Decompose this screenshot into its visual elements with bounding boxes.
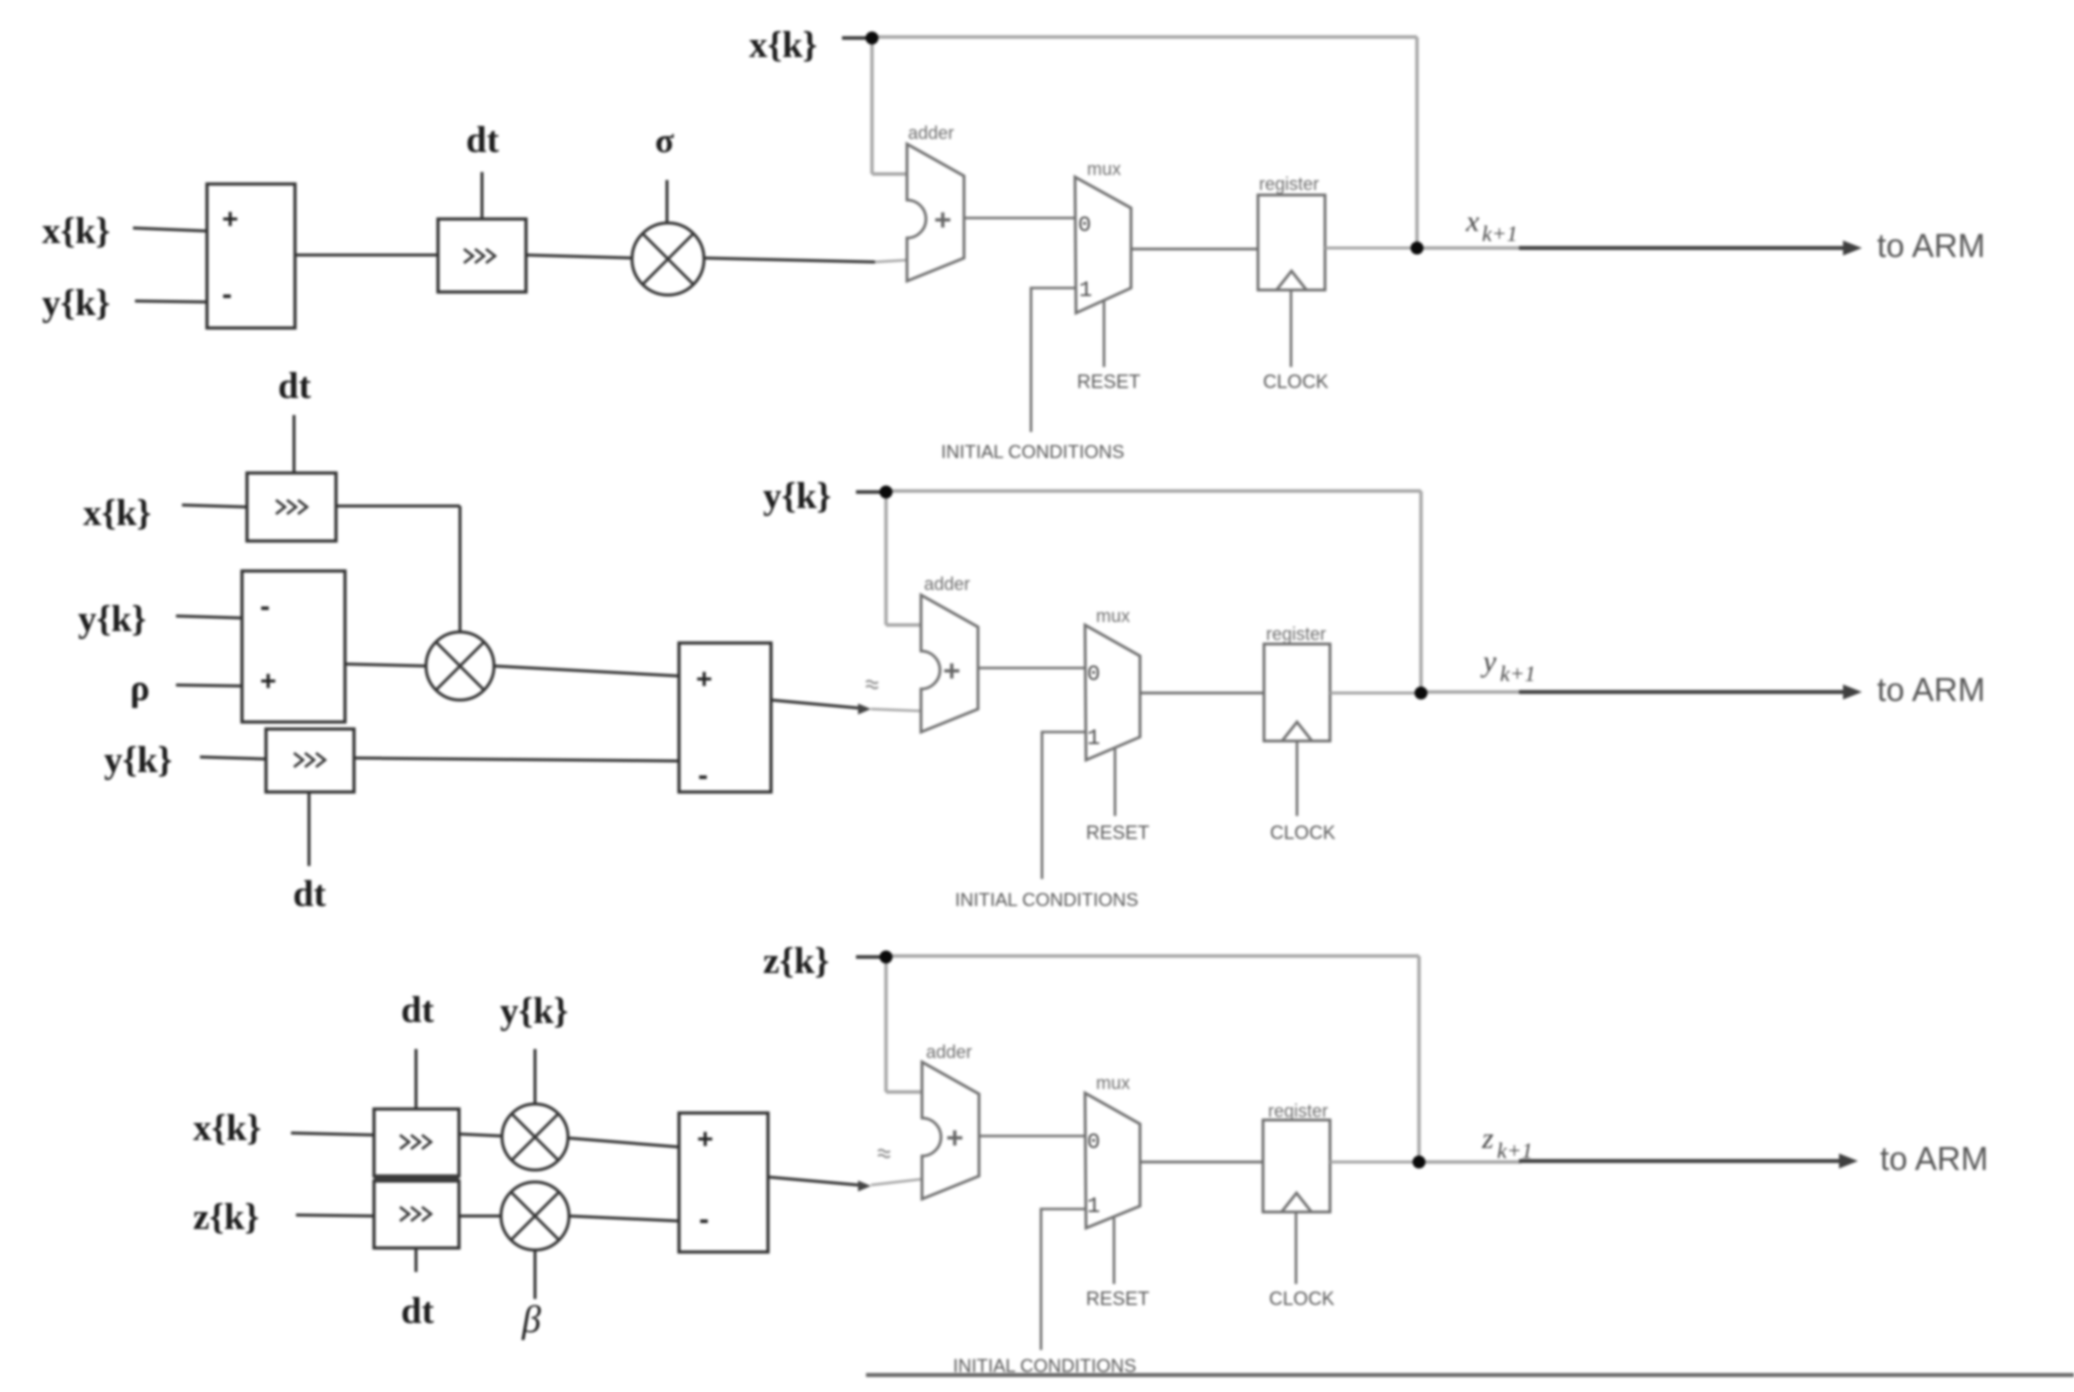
svg-text:INITIAL CONDITIONS: INITIAL CONDITIONS bbox=[953, 1355, 1136, 1376]
node y{k} input label b (row2) bbox=[104, 740, 172, 781]
label INITIAL CONDITIONS (row3) bbox=[953, 1355, 1136, 1376]
adder U7 (row3) bbox=[922, 1062, 979, 1199]
subtractor A1 minus sign bbox=[222, 278, 232, 311]
svg-text:register: register bbox=[1259, 174, 1319, 194]
label INITIAL CONDITIONS (row2) bbox=[955, 889, 1138, 910]
value label dt bottom (row3) bbox=[401, 1291, 435, 1332]
multiplier M3a (row3) bbox=[502, 1104, 568, 1170]
register U9 label bbox=[1268, 1101, 1328, 1121]
wire x{k} into subtractor (row1) bbox=[133, 228, 207, 231]
svg-text:y{k}: y{k} bbox=[78, 599, 146, 640]
wire output gray segment (row3) bbox=[1425, 1160, 1521, 1163]
wire adder U7 to mux U8 input 0 (row3) bbox=[979, 1135, 1086, 1138]
svg-text:CLOCK: CLOCK bbox=[1263, 372, 1329, 393]
wire adder U4 to mux U5 input 0 (row2) bbox=[978, 667, 1086, 670]
wire mux to register (row1) bbox=[1131, 248, 1258, 251]
label to ARM (row2) bbox=[1877, 671, 1985, 708]
wire adder A3 to adder U7 (row3) bbox=[768, 1177, 858, 1185]
multiplier M2 (row2) bbox=[426, 632, 494, 700]
svg-text:INITIAL CONDITIONS: INITIAL CONDITIONS bbox=[941, 441, 1124, 462]
wire y{k} into shifter S2b (row2) bbox=[200, 757, 266, 759]
svg-text:-: - bbox=[260, 590, 270, 623]
wire feedback top horizontal (row2) bbox=[886, 489, 1421, 492]
svg-text:y{k}: y{k} bbox=[500, 991, 568, 1032]
wire y{k} into subtractor A2 (row2) bbox=[176, 616, 242, 618]
svg-text:0: 0 bbox=[1087, 662, 1100, 687]
svg-text:1: 1 bbox=[1079, 278, 1092, 303]
wire output to ARM (row3) bbox=[1519, 1159, 1842, 1163]
node output junction dot (row1) bbox=[1411, 242, 1424, 255]
subtractor A1 (+/- box row1) bbox=[207, 184, 295, 328]
mux U5 pin 0 bbox=[1087, 662, 1100, 687]
register U3 label bbox=[1259, 174, 1319, 194]
svg-text:0: 0 bbox=[1087, 1130, 1100, 1155]
svg-text:1: 1 bbox=[1087, 1194, 1100, 1219]
svg-text:σ: σ bbox=[655, 121, 674, 160]
wire x{k} into shifter S2a (row2) bbox=[182, 505, 247, 507]
wire y{k} into subtractor (row1) bbox=[135, 301, 207, 302]
svg-text:ρ: ρ bbox=[130, 668, 150, 709]
node rho input label (row2) bbox=[130, 668, 150, 709]
svg-text:k+1: k+1 bbox=[1482, 221, 1518, 246]
mux U2 (row1) bbox=[1075, 177, 1131, 313]
arrowhead into adder U4 (row2) bbox=[858, 704, 871, 715]
adder U4 (row2) bbox=[921, 595, 978, 732]
wire multiplier M3b to adder A3 (row3) bbox=[569, 1216, 679, 1221]
wire shifter S2b to adder A2b (row2) bbox=[354, 758, 679, 761]
wire bottom rail bbox=[866, 1373, 2074, 1377]
svg-text:z{k}: z{k} bbox=[193, 1197, 259, 1238]
subtractor A1 plus sign bbox=[222, 203, 238, 234]
adder U7 plus sign bbox=[946, 1122, 964, 1155]
svg-text:z{k}: z{k} bbox=[763, 941, 829, 982]
adder A2b (+/- box row2) bbox=[679, 643, 771, 792]
wire subtractor to shifter (row1) bbox=[295, 254, 438, 257]
label RESET (row2) bbox=[1086, 823, 1150, 844]
wire stub into adder U4 (row2) bbox=[871, 709, 922, 711]
svg-text:-: - bbox=[222, 278, 232, 311]
wire beta into multiplier M3b (row3) bbox=[534, 1250, 537, 1299]
node label y_k+1 (row2) bbox=[1480, 645, 1536, 686]
svg-text:1: 1 bbox=[1087, 726, 1100, 751]
svg-text:x{k}: x{k} bbox=[749, 25, 817, 66]
svg-text:β: β bbox=[521, 1299, 541, 1341]
wire from z{k} label to node (row3) bbox=[856, 955, 880, 958]
mux U5 pin 1 bbox=[1087, 726, 1100, 751]
wire sigma into multiplier (row1) bbox=[666, 180, 669, 223]
svg-text:dt: dt bbox=[293, 874, 327, 915]
wire CLOCK to register U9 (row3) bbox=[1295, 1212, 1298, 1284]
wire from y{k} label to node (row2) bbox=[856, 490, 880, 493]
wire feedback top horizontal (row3) bbox=[886, 954, 1419, 957]
shifter S1 (>>> box row1) bbox=[438, 219, 526, 292]
shifter S3a (>>> box row3 top) bbox=[374, 1109, 459, 1176]
wire mux U8 to register U9 (row3) bbox=[1140, 1161, 1263, 1164]
node output junction dot (row2) bbox=[1415, 687, 1428, 700]
adder U7 label bbox=[926, 1042, 972, 1062]
svg-text:register: register bbox=[1266, 624, 1326, 644]
wire z{k} into shifter S3b (row3) bbox=[296, 1215, 374, 1216]
wire shifter S3a to multiplier M3a (row3) bbox=[459, 1134, 502, 1136]
svg-text:z: z bbox=[1481, 1122, 1494, 1155]
subtractor A2 plus sign bbox=[260, 665, 276, 696]
wire from node down to adder upper input (row2) bbox=[886, 492, 922, 625]
mux U2 label bbox=[1087, 159, 1121, 179]
adder A3 minus sign bbox=[699, 1203, 709, 1236]
arrowhead to ARM (row2) bbox=[1843, 685, 1862, 700]
svg-text:y{k}: y{k} bbox=[104, 740, 172, 781]
node y{k} input label (row1 left) bbox=[42, 283, 110, 324]
label CLOCK (row3) bbox=[1269, 1289, 1335, 1310]
svg-text:dt: dt bbox=[401, 1291, 435, 1332]
svg-text:RESET: RESET bbox=[1086, 823, 1150, 844]
wire subtractor A2 to multiplier M2 (row2) bbox=[345, 664, 426, 666]
adder A2b plus sign bbox=[696, 663, 712, 694]
svg-text:x: x bbox=[1465, 205, 1480, 238]
approx mark (row2) bbox=[866, 681, 878, 689]
wire multiplier to adder (row1) bbox=[704, 258, 908, 262]
wire from x{k} label to node (row1) bbox=[842, 36, 866, 39]
svg-text:+: + bbox=[697, 1123, 713, 1154]
wire feedback right vertical (row3) bbox=[1417, 956, 1420, 1162]
approx mark (row3) bbox=[878, 1150, 890, 1158]
svg-text:mux: mux bbox=[1087, 159, 1121, 179]
svg-text:INITIAL CONDITIONS: INITIAL CONDITIONS bbox=[955, 889, 1138, 910]
wire register U9 to output node (row3) bbox=[1330, 1161, 1419, 1164]
svg-text:x{k}: x{k} bbox=[42, 211, 110, 252]
mux U8 pin 0 bbox=[1087, 1130, 1100, 1155]
value label dt (row1) bbox=[466, 120, 500, 161]
multiplier M3b (row3) bbox=[501, 1182, 569, 1250]
wire feedback right vertical (row1) bbox=[1415, 37, 1418, 248]
wire multiplier M3a to adder A3 (row3) bbox=[568, 1138, 679, 1147]
node output junction dot (row3) bbox=[1413, 1156, 1426, 1169]
node x{k} input label (row3) bbox=[193, 1108, 261, 1149]
node y{k} input label (row2) bbox=[78, 599, 146, 640]
wire shifter S2a to multiplier M2 (row2) bbox=[336, 506, 460, 632]
wire output to ARM (row1) bbox=[1519, 246, 1845, 250]
svg-text:y{k}: y{k} bbox=[763, 476, 831, 517]
divider between shifters (row3) bbox=[374, 1175, 459, 1182]
node junction dot left (row1) bbox=[866, 32, 879, 45]
adder A3 (+/- box row3) bbox=[679, 1113, 768, 1252]
arrowhead to ARM (row1) bbox=[1843, 241, 1862, 256]
arrowhead to ARM (row3) bbox=[1839, 1154, 1858, 1169]
arrowhead into adder U7 (row3) bbox=[858, 1181, 871, 1192]
wire feedback top horizontal (row1) bbox=[872, 35, 1417, 38]
value label dt top (row2) bbox=[278, 366, 312, 407]
wire output to ARM (row2) bbox=[1519, 690, 1845, 694]
adder U1 label bbox=[908, 123, 954, 143]
svg-text:adder: adder bbox=[926, 1042, 972, 1062]
svg-text:+: + bbox=[260, 665, 276, 696]
svg-text:RESET: RESET bbox=[1086, 1289, 1150, 1310]
svg-text:+: + bbox=[946, 1122, 964, 1155]
node z{k} input label (row3) bbox=[193, 1197, 259, 1238]
svg-text:to ARM: to ARM bbox=[1880, 1140, 1988, 1177]
svg-text:RESET: RESET bbox=[1077, 372, 1141, 393]
svg-text:+: + bbox=[696, 663, 712, 694]
svg-text:y{k}: y{k} bbox=[42, 283, 110, 324]
svg-text:dt: dt bbox=[466, 120, 500, 161]
register U6 label bbox=[1266, 624, 1326, 644]
node y{k} label (row2 top) bbox=[763, 476, 831, 517]
wire INITIAL CONDITIONS to mux U8 input 1 (row3) bbox=[1041, 1209, 1086, 1350]
svg-text:dt: dt bbox=[401, 990, 435, 1031]
wire stub into adder U7 (row3) bbox=[871, 1179, 923, 1185]
node label z_k+1 (row3) bbox=[1481, 1122, 1533, 1163]
svg-text:to ARM: to ARM bbox=[1877, 671, 1985, 708]
node x{k} input label (row2) bbox=[83, 493, 151, 534]
wire y{k} into multiplier M3a (row3) bbox=[534, 1049, 537, 1104]
mux U5 label bbox=[1096, 606, 1130, 626]
wire RESET to mux U8 (row3) bbox=[1113, 1218, 1116, 1284]
wire RESET to mux (row1) bbox=[1103, 300, 1106, 367]
label to ARM (row1) bbox=[1877, 227, 1985, 264]
svg-text:+: + bbox=[222, 203, 238, 234]
value label beta (row3) bbox=[521, 1299, 541, 1341]
wire register U6 to output node (row2) bbox=[1330, 692, 1421, 695]
wire multiplier M2 to adder A2b (row2) bbox=[494, 666, 679, 676]
mux U8 label bbox=[1096, 1073, 1130, 1093]
svg-text:adder: adder bbox=[924, 574, 970, 594]
svg-text:y: y bbox=[1480, 645, 1497, 678]
shifter S2a (>>> box row2 top) bbox=[247, 473, 336, 541]
multiplier M1 (row1) bbox=[632, 223, 704, 295]
mux U5 (row2) bbox=[1085, 625, 1140, 760]
adder U1 plus sign bbox=[934, 204, 952, 237]
svg-text:+: + bbox=[934, 204, 952, 237]
wire rho into subtractor A2 (row2) bbox=[176, 685, 242, 686]
mux U8 (row3) bbox=[1085, 1093, 1140, 1228]
label RESET (row3) bbox=[1086, 1289, 1150, 1310]
wire dt bottom into shifter S3b (row3) bbox=[415, 1248, 418, 1272]
wire RESET to mux U5 (row2) bbox=[1114, 748, 1117, 816]
subtractor A2 (-/+ box row2) bbox=[242, 571, 345, 722]
wire dt into shifter S3a (row3) bbox=[415, 1049, 418, 1109]
label INITIAL CONDITIONS (row1) bbox=[941, 441, 1124, 462]
node label x_k+1 (row1) bbox=[1465, 205, 1518, 246]
svg-text:register: register bbox=[1268, 1101, 1328, 1121]
adder U4 label bbox=[924, 574, 970, 594]
wire mux U5 to register U6 (row2) bbox=[1140, 692, 1264, 695]
register U9 (row3) bbox=[1263, 1120, 1330, 1212]
shifter S3b (>>> box row3 bottom) bbox=[374, 1181, 459, 1248]
adder A2b minus sign bbox=[698, 759, 708, 792]
value label dt bottom (row2) bbox=[293, 874, 327, 915]
wire from node down to adder upper input (row3) bbox=[886, 957, 923, 1092]
wire register to output node (row1) bbox=[1325, 247, 1417, 250]
mux U2 pin 0 bbox=[1078, 213, 1091, 238]
svg-text:CLOCK: CLOCK bbox=[1269, 1289, 1335, 1310]
svg-text:k+1: k+1 bbox=[1500, 661, 1536, 686]
wire from node down to adder upper input (row1) bbox=[872, 38, 908, 174]
wire x{k} into shifter S3a (row3) bbox=[291, 1133, 374, 1135]
wire INITIAL CONDITIONS to mux input 1 (row1) bbox=[1031, 288, 1076, 432]
shifter S2b (>>> box row2 bottom) bbox=[266, 729, 354, 792]
wire INITIAL CONDITIONS to mux U5 input 1 (row2) bbox=[1042, 732, 1086, 879]
adder U1 (row1) bbox=[907, 144, 964, 281]
node x{k} label (row1 top) bbox=[749, 25, 817, 66]
node z{k} label (row3 top) bbox=[763, 941, 829, 982]
svg-text:-: - bbox=[698, 759, 708, 792]
value label sigma (row1) bbox=[655, 121, 674, 160]
wire dt into shifter S2a (row2) bbox=[293, 415, 296, 473]
svg-text:x{k}: x{k} bbox=[83, 493, 151, 534]
svg-text:x{k}: x{k} bbox=[193, 1108, 261, 1149]
svg-text:-: - bbox=[699, 1203, 709, 1236]
svg-text:mux: mux bbox=[1096, 606, 1130, 626]
wire CLOCK to register (row1) bbox=[1290, 290, 1293, 367]
register U6 (row2) bbox=[1264, 644, 1330, 741]
wire output gray segment (row2) bbox=[1427, 690, 1521, 693]
svg-text:CLOCK: CLOCK bbox=[1270, 823, 1336, 844]
wire adder to mux input 0 (row1) bbox=[964, 217, 1076, 220]
label RESET (row1) bbox=[1077, 372, 1141, 393]
svg-text:mux: mux bbox=[1096, 1073, 1130, 1093]
node x{k} input label (row1 left) bbox=[42, 211, 110, 252]
subtractor A2 minus sign bbox=[260, 590, 270, 623]
adder U4 plus sign bbox=[943, 655, 961, 688]
mux U2 pin 1 bbox=[1079, 278, 1092, 303]
wire adder A2b to adder U4 (row2) bbox=[771, 700, 858, 708]
node y{k} input label top (row3) bbox=[500, 991, 568, 1032]
register U3 (row1) bbox=[1258, 195, 1325, 290]
wire dt into shifter (row1) bbox=[481, 172, 484, 219]
value label dt top (row3) bbox=[401, 990, 435, 1031]
label CLOCK (row1) bbox=[1263, 372, 1329, 393]
svg-text:adder: adder bbox=[908, 123, 954, 143]
wire output gray segment (row1) bbox=[1423, 246, 1521, 249]
node junction dot left (row3) bbox=[880, 951, 893, 964]
wire dt bottom into shifter S2b (row2) bbox=[308, 792, 311, 866]
svg-text:0: 0 bbox=[1078, 213, 1091, 238]
label to ARM (row3) bbox=[1880, 1140, 1988, 1177]
svg-text:dt: dt bbox=[278, 366, 312, 407]
wire shifter S3b to multiplier M3b (row3) bbox=[459, 1215, 501, 1218]
wire CLOCK to register U6 (row2) bbox=[1296, 741, 1299, 816]
mux U8 pin 1 bbox=[1087, 1194, 1100, 1219]
svg-text:+: + bbox=[943, 655, 961, 688]
adder A3 plus sign bbox=[697, 1123, 713, 1154]
svg-text:to ARM: to ARM bbox=[1877, 227, 1985, 264]
node junction dot left (row2) bbox=[880, 486, 893, 499]
wire feedback right vertical (row2) bbox=[1419, 491, 1422, 693]
label CLOCK (row2) bbox=[1270, 823, 1336, 844]
wire shifter to multiplier (row1) bbox=[526, 255, 632, 258]
